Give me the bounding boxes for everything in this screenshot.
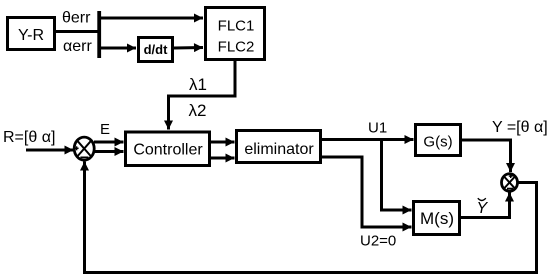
svg-text:G(s): G(s): [423, 134, 452, 151]
svg-text:Y =[θ α]: Y =[θ α]: [492, 119, 548, 136]
svg-text:eliminator: eliminator: [244, 141, 314, 158]
svg-text:λ2: λ2: [189, 101, 207, 120]
svg-text:λ1: λ1: [189, 75, 207, 94]
svg-text:Controller: Controller: [133, 142, 203, 159]
svg-text:Y: Y: [477, 200, 489, 217]
svg-text:FLC1: FLC1: [218, 18, 255, 35]
svg-text:d/dt: d/dt: [144, 42, 168, 57]
svg-text:E: E: [100, 121, 110, 138]
svg-text:FLC2: FLC2: [218, 39, 255, 56]
svg-text:U2=0: U2=0: [360, 233, 396, 250]
svg-text:M(s): M(s): [420, 209, 454, 228]
svg-text:Y-R: Y-R: [18, 27, 44, 44]
svg-text:θerr: θerr: [62, 10, 91, 27]
svg-text:αerr: αerr: [63, 38, 92, 55]
svg-text:R=[θ α]: R=[θ α]: [3, 129, 55, 146]
svg-text:U1: U1: [368, 120, 387, 137]
